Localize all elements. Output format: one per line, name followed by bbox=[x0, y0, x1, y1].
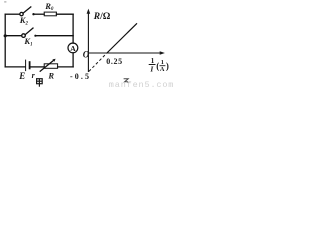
svg-text:E: E bbox=[18, 71, 25, 81]
svg-text:O: O bbox=[83, 50, 90, 60]
scan speck bbox=[4, 1, 6, 2]
y-axis bbox=[87, 11, 89, 72]
bottom wire left bbox=[5, 66, 25, 68]
svg-text:): ) bbox=[166, 61, 169, 71]
x-axis label fraction 1/I (1/A) bbox=[149, 57, 169, 73]
plotted line solid part bbox=[107, 23, 137, 53]
wire middle segment b bbox=[35, 35, 73, 37]
wire right vertical upper bbox=[72, 14, 74, 43]
x-axis arrowhead bbox=[160, 51, 165, 55]
svg-text:-0.5: -0.5 bbox=[70, 72, 91, 81]
y-axis arrowhead bbox=[87, 9, 91, 14]
wire top segment b bbox=[34, 13, 45, 15]
resistor R0 box bbox=[44, 12, 56, 16]
node junction left bbox=[4, 34, 7, 37]
switch K1 bbox=[22, 28, 37, 37]
svg-text:manfen5.com: manfen5.com bbox=[109, 80, 174, 89]
svg-text:R: R bbox=[47, 71, 54, 81]
battery E r bbox=[26, 60, 30, 71]
wire top segment c bbox=[56, 13, 73, 15]
rheostat R bbox=[40, 59, 57, 71]
switch K2 bbox=[20, 7, 35, 16]
graph axes bbox=[88, 11, 162, 72]
svg-text:(: ( bbox=[156, 61, 159, 71]
wire left vertical bbox=[4, 14, 6, 67]
label 乙 (figure b) drawn as path bbox=[124, 79, 130, 83]
plotted line dashed part bbox=[89, 53, 107, 71]
ammeter A bbox=[68, 43, 78, 53]
svg-text:A: A bbox=[160, 66, 165, 73]
svg-text:A: A bbox=[70, 44, 76, 53]
bottom wire middle bbox=[30, 66, 44, 68]
svg-text:R/Ω: R/Ω bbox=[93, 12, 111, 22]
x-axis bbox=[88, 52, 162, 54]
bottom wire right bbox=[58, 66, 74, 68]
svg-text:0.25: 0.25 bbox=[106, 57, 122, 66]
label 甲 (figure a) drawn as path bbox=[37, 79, 43, 87]
wire top segment a bbox=[5, 13, 20, 15]
wire middle segment a bbox=[5, 35, 22, 37]
wire right vertical lower bbox=[72, 53, 74, 67]
